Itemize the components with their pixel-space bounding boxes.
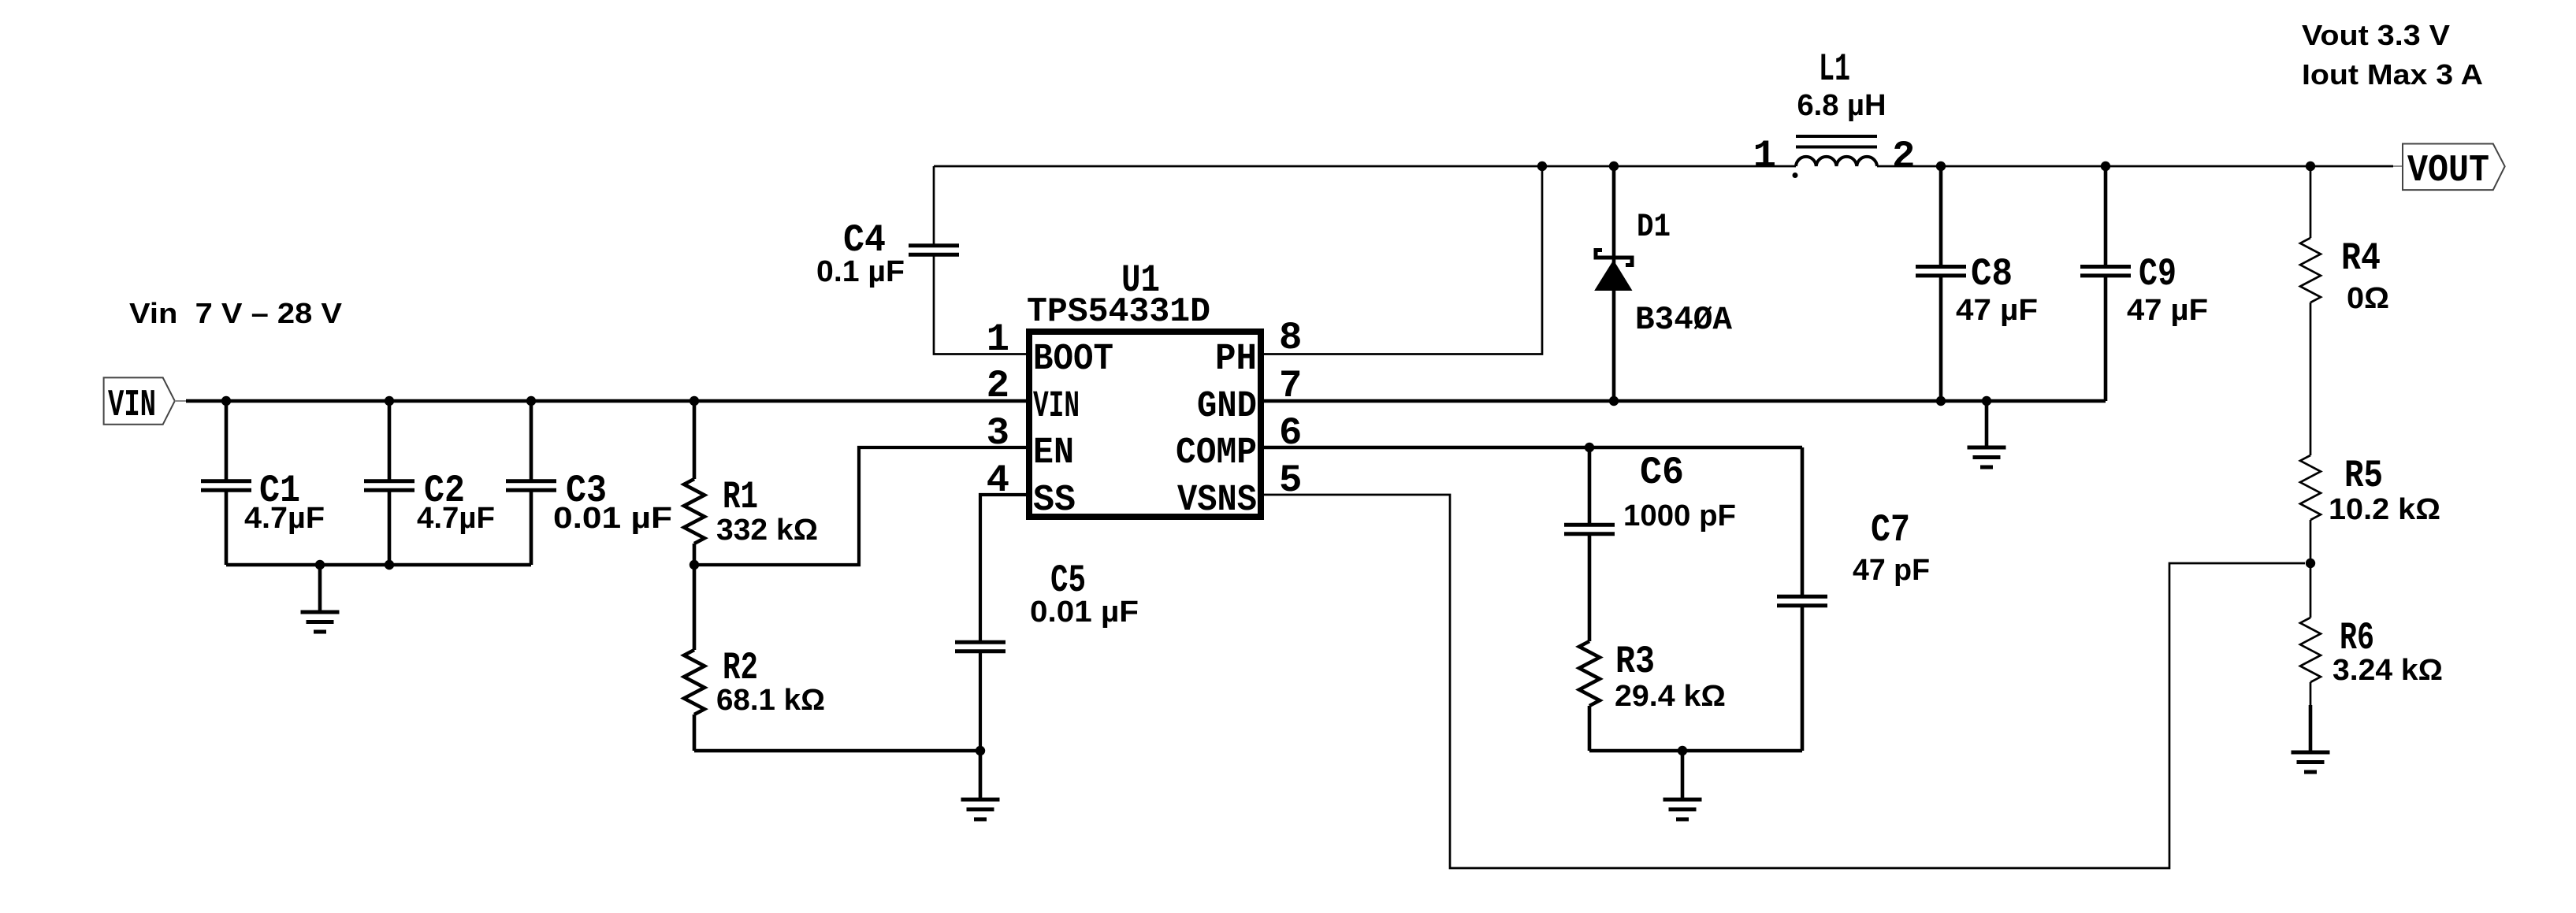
node junction PH riser/rail (1537, 161, 1547, 171)
svg-text:BOOT: BOOT (1033, 339, 1113, 380)
node junction R4/rail (2306, 161, 2315, 171)
ground R6 (2292, 751, 2330, 755)
node junction gnd/compensation (1678, 746, 1687, 755)
svg-text:Vin 7 V – 28 V: Vin 7 V – 28 V (129, 297, 342, 329)
svg-text:EN: EN (1033, 432, 1074, 474)
svg-text:1000 pF: 1000 pF (1623, 499, 1736, 533)
capacitor C5 (955, 640, 1005, 644)
ground output capacitors (1968, 446, 2006, 450)
node junction gnd/bus (315, 560, 325, 570)
svg-text:R3: R3 (1615, 640, 1655, 684)
wire ground stem input bus (318, 565, 322, 611)
wire ground stem C5 (979, 751, 983, 798)
svg-text:0.1 µF: 0.1 µF (816, 255, 905, 288)
wire R1 top (693, 401, 697, 479)
svg-text:D1: D1 (1637, 208, 1671, 246)
wire R6 top (2310, 563, 2312, 618)
inductor L1 polarity dot (1793, 173, 1798, 178)
svg-text:C8: C8 (1971, 252, 2013, 296)
wire C7 branch top (1801, 447, 1805, 596)
node junction C3/VIN (526, 396, 536, 406)
svg-text:Iout Max 3 A: Iout Max 3 A (2302, 58, 2483, 91)
wire R4 top (2310, 166, 2312, 238)
capacitor C3 (506, 479, 556, 483)
inductor L1 coil (1796, 157, 1877, 166)
wire PH stub (1263, 166, 1542, 354)
wire C3 branch top (530, 401, 533, 481)
svg-text:C6: C6 (1640, 451, 1684, 495)
node junction C5/R2/gnd (976, 746, 985, 755)
wire C7 branch bottom (1801, 606, 1805, 751)
svg-text:B34ØA: B34ØA (1635, 301, 1733, 339)
svg-text:R5: R5 (2344, 454, 2383, 498)
svg-text:C7: C7 (1871, 508, 1910, 552)
wire VIN rail (186, 399, 1027, 403)
svg-text:3.24 kΩ: 3.24 kΩ (2333, 654, 2443, 687)
svg-text:COMP: COMP (1176, 432, 1257, 474)
wire R1 bottom (693, 544, 697, 565)
op-amp U1 TPS54331D box (1029, 332, 1261, 517)
node junction C2/VIN (385, 396, 394, 406)
node junction D1/GND (1609, 396, 1619, 406)
capacitor C6 (1564, 523, 1615, 527)
node junction C1/VIN (221, 396, 231, 406)
ground compensation network (1663, 798, 1702, 802)
wire C8 top (1939, 166, 1943, 267)
wire D1 branch (1612, 166, 1616, 401)
wire ground stem output caps (1985, 401, 1989, 446)
ground input capacitors (301, 611, 340, 614)
wire C3 branch bottom (530, 490, 533, 565)
wire VIN flag lead (175, 400, 189, 402)
node junction R5/R6/VSNS (2306, 559, 2315, 568)
svg-text:29.4 kΩ: 29.4 kΩ (1615, 680, 1726, 713)
svg-text:SS: SS (1033, 480, 1076, 521)
svg-text:47 µF: 47 µF (2127, 294, 2208, 327)
node junction C9/rail (2101, 161, 2110, 171)
capacitor C9 (2080, 265, 2131, 269)
capacitor C1 (201, 479, 251, 483)
wire VOUT flag lead (2393, 165, 2403, 167)
resistor R2 (684, 650, 704, 714)
svg-text:C9: C9 (2139, 252, 2176, 296)
resistor R5 (2300, 455, 2321, 520)
wire VOUT rail (1877, 165, 2393, 168)
wire R6 bottom (2310, 682, 2312, 707)
wire COMP net (1263, 446, 1802, 450)
wire C6 top (1588, 447, 1592, 525)
capacitor C2 (364, 479, 414, 483)
svg-text:0.01 µF: 0.01 µF (1030, 596, 1139, 629)
resistor R1 (684, 479, 704, 544)
svg-text:R1: R1 (723, 475, 758, 519)
node junction C8/GND (1936, 396, 1946, 406)
wire R4 to R5 (2310, 302, 2312, 455)
svg-text:68.1 kΩ: 68.1 kΩ (716, 684, 825, 717)
capacitor C4 (909, 243, 959, 247)
svg-text:PH: PH (1215, 339, 1257, 380)
svg-text:332 kΩ: 332 kΩ (716, 514, 818, 547)
svg-text:VOUT: VOUT (2407, 150, 2489, 192)
wire BOOT rail left (934, 165, 1796, 168)
node junction D1/rail (1609, 161, 1619, 171)
wire R2 bottom (693, 714, 697, 751)
capacitor C8 (1916, 265, 1966, 269)
svg-text:4.7µF: 4.7µF (417, 502, 495, 535)
resistor R6 (2300, 618, 2321, 682)
svg-text:TPS54331D: TPS54331D (1027, 292, 1210, 332)
svg-text:4: 4 (987, 458, 1009, 503)
wire C4 top (933, 166, 935, 246)
wire ground stem compensation (1681, 751, 1685, 798)
wire SS to C5 (980, 495, 1027, 642)
wire C5 bottom (979, 651, 982, 751)
node junction R1/R2/EN (690, 560, 699, 570)
svg-text:47 µF: 47 µF (1956, 294, 2038, 327)
svg-text:47 pF: 47 pF (1853, 554, 1930, 587)
wire C1 branch top (225, 401, 229, 481)
wire R5 bottom (2310, 520, 2312, 563)
wire C8 bottom (1939, 276, 1943, 401)
resistor R3 (1579, 641, 1600, 706)
wire VSNS feedback (1263, 495, 2305, 868)
svg-text:2: 2 (987, 364, 1009, 408)
svg-text:3: 3 (987, 411, 1009, 455)
node junction C8/rail (1936, 161, 1946, 171)
svg-text:VIN: VIN (1033, 386, 1080, 428)
svg-text:5: 5 (1279, 458, 1302, 503)
svg-text:6.8 µH: 6.8 µH (1797, 89, 1886, 122)
svg-text:L1: L1 (1819, 47, 1850, 91)
wire C6 to R3 (1588, 534, 1592, 641)
svg-text:1: 1 (1753, 134, 1776, 178)
node junction C6/COMP (1585, 443, 1594, 452)
svg-text:R4: R4 (2341, 236, 2381, 280)
svg-text:GND: GND (1197, 386, 1257, 428)
node junction C2/bus (385, 560, 394, 570)
wire C1 branch bottom (225, 490, 229, 565)
VOUT output flag (2403, 144, 2505, 191)
svg-text:0Ω: 0Ω (2347, 282, 2389, 315)
svg-text:VIN: VIN (108, 384, 156, 427)
svg-text:Vout 3.3 V: Vout 3.3 V (2302, 19, 2450, 51)
wire ground stem R6 (2309, 705, 2313, 751)
diode D1 triangle (1594, 260, 1632, 291)
wire R3 bottom (1588, 706, 1592, 751)
resistor R4 (2300, 238, 2321, 302)
node junction gnd stem/GND (1982, 396, 1991, 406)
wire C9 bottom (2104, 276, 2108, 401)
wire C4 bottom to BOOT (934, 254, 1027, 354)
wire compensation bottom (1589, 749, 1802, 753)
svg-text:10.2 kΩ: 10.2 kΩ (2329, 493, 2440, 526)
inductor L1 core lines (1796, 135, 1877, 138)
wire C9 top (2104, 166, 2108, 267)
VIN input flag (104, 377, 175, 424)
wire R2 to ground node (694, 749, 980, 753)
wire C2 branch top (388, 401, 392, 481)
wire capacitor ground bus (226, 563, 531, 567)
capacitor C7 (1777, 595, 1827, 599)
wire R2 top (693, 565, 697, 650)
wire EN net (694, 447, 1027, 565)
wire C2 branch bottom (388, 490, 392, 565)
svg-text:VSNS: VSNS (1177, 480, 1257, 521)
svg-text:4.7µF: 4.7µF (244, 502, 325, 535)
ground C5/R2 (961, 798, 1000, 802)
diode D1 schottky cathode bar (1596, 251, 1632, 265)
svg-text:0.01 µF: 0.01 µF (553, 502, 672, 535)
wire GND net (1263, 399, 2106, 403)
svg-text:1: 1 (987, 317, 1009, 362)
node junction R1/VIN (690, 396, 699, 406)
svg-text:2: 2 (1892, 135, 1915, 179)
